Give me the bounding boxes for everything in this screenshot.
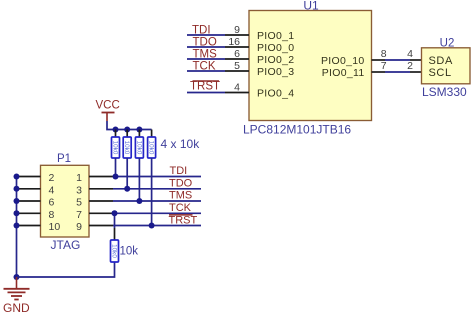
pullup R1 bottom wire to TDI — [115, 158, 117, 177]
wire GND run to pulldown R — [17, 262, 115, 277]
svg-text:6: 6 — [234, 48, 240, 60]
U1 pin 5 stub (TCK) — [225, 70, 249, 72]
svg-text:4: 4 — [234, 82, 240, 94]
P1 pin 4 stub — [17, 188, 41, 190]
svg-text:16: 16 — [228, 36, 240, 48]
P1 pin 5 stub — [89, 200, 113, 202]
junction R2/TDO — [124, 186, 130, 192]
svg-text:SDA: SDA — [429, 55, 453, 67]
svg-text:P1: P1 — [57, 153, 71, 165]
net wire U1 pin8 to U2 SDA — [385, 59, 410, 61]
svg-text:PIO0_11: PIO0_11 — [322, 67, 365, 79]
svg-text:TCK: TCK — [193, 61, 216, 73]
svg-text:10k0: 10k0 — [112, 141, 119, 155]
U1 pin 6 stub (TMS) — [225, 58, 249, 60]
svg-text:7: 7 — [76, 209, 82, 221]
IC U2 body — [422, 48, 471, 84]
U2 pin 4 stub (SDA) — [410, 59, 422, 61]
U1 pin 8 stub (PIO0_10) — [372, 59, 386, 61]
junction P1 pin2/bus — [14, 174, 20, 180]
svg-text:10k: 10k — [120, 246, 139, 258]
junction R4/TRST — [149, 223, 155, 229]
pulldown R5 wire from TCK — [114, 213, 116, 228]
junction rail/R2 — [124, 127, 130, 133]
pullup R4 bottom wire to TRST — [151, 158, 153, 226]
junction R1/TDI — [113, 174, 119, 180]
ground symbol GND — [4, 277, 30, 300]
junction bus/GND corner — [14, 274, 20, 280]
U1 pin 16 stub (TDO) — [225, 46, 249, 48]
U1 pin 7 stub (PIO0_11) — [372, 71, 386, 73]
svg-text:LPC812M101JTB16: LPC812M101JTB16 — [243, 123, 351, 137]
pullup resistor R2 body — [123, 137, 131, 158]
svg-text:SCL: SCL — [429, 67, 452, 79]
svg-text:5: 5 — [234, 60, 240, 72]
svg-text:TMS: TMS — [193, 49, 218, 61]
svg-text:GND: GND — [3, 301, 30, 313]
svg-text:10k0: 10k0 — [135, 141, 142, 155]
junction P1 pin8/bus — [14, 210, 20, 216]
svg-text:8: 8 — [381, 48, 387, 60]
svg-text:PIO0_2: PIO0_2 — [257, 54, 294, 66]
net wire TDI (to U1) — [187, 34, 225, 36]
VCC symbol — [102, 113, 115, 122]
svg-text:2: 2 — [407, 60, 413, 72]
junction rail/R3 — [136, 127, 142, 133]
svg-text:TRST: TRST — [169, 215, 198, 227]
P1 pin 10 stub — [17, 225, 41, 227]
junction P1 pin4/bus — [14, 186, 20, 192]
IC U1 body — [249, 11, 372, 121]
P1 pin 8 stub — [17, 212, 41, 214]
GND bus vertical wire — [16, 177, 18, 278]
svg-text:4: 4 — [49, 184, 55, 196]
pullup R3 bottom wire to TMS — [138, 158, 140, 201]
svg-text:JTAG: JTAG — [51, 238, 81, 252]
junction R5/TCK — [112, 210, 118, 216]
svg-text:10k0: 10k0 — [148, 141, 155, 155]
svg-text:10k0: 10k0 — [123, 141, 130, 155]
svg-text:TDI: TDI — [170, 165, 188, 177]
svg-text:PIO0_10: PIO0_10 — [321, 55, 365, 67]
svg-text:9: 9 — [76, 221, 82, 233]
net wire TRST (from P1 pin 9) — [113, 225, 201, 227]
svg-text:TCK: TCK — [169, 202, 192, 214]
pullup R3 top stub — [138, 130, 140, 138]
U2 pin 2 stub (SCL) — [410, 71, 422, 73]
pullup R2 top stub — [126, 130, 128, 138]
svg-text:8: 8 — [49, 209, 55, 221]
U1 pin 4 stub (TRST) — [225, 92, 249, 94]
svg-text:U2: U2 — [440, 38, 455, 50]
svg-text:10: 10 — [49, 221, 61, 233]
svg-text:4 x 10k: 4 x 10k — [161, 137, 201, 151]
svg-text:PIO0_4: PIO0_4 — [257, 88, 294, 100]
svg-text:TRST: TRST — [190, 81, 220, 93]
svg-text:VCC: VCC — [96, 100, 120, 112]
net wire U1 pin7 to U2 SCL — [385, 71, 410, 73]
pullup resistor R4 body — [148, 137, 156, 158]
net wire TMS (to U1) — [187, 58, 225, 60]
junction rail/R1 — [113, 127, 119, 133]
P1 pin 2 stub — [17, 176, 41, 178]
svg-text:U1: U1 — [303, 0, 319, 13]
svg-text:3: 3 — [76, 184, 82, 196]
svg-text:1: 1 — [76, 172, 82, 184]
pullup R2 bottom wire to TDO — [126, 158, 128, 189]
P1 pin 6 stub — [17, 200, 41, 202]
svg-text:4: 4 — [407, 48, 413, 60]
svg-text:PIO0_3: PIO0_3 — [257, 66, 294, 78]
svg-text:TDO: TDO — [169, 177, 193, 189]
svg-text:TMS: TMS — [169, 190, 192, 202]
svg-text:7: 7 — [381, 60, 387, 72]
svg-text:PIO0_0: PIO0_0 — [257, 42, 294, 54]
svg-text:TDO: TDO — [193, 37, 217, 49]
P1 pin 7 stub — [89, 212, 113, 214]
svg-text:5: 5 — [76, 197, 82, 209]
svg-text:LSM330: LSM330 — [422, 85, 467, 99]
net wire TCK (from P1 pin 7) — [113, 212, 201, 214]
pullup R1 top stub — [115, 130, 117, 138]
wire VCC to pullup rail — [107, 121, 152, 130]
net wire TMS (from P1 pin 5) — [113, 200, 201, 202]
P1 pin 3 stub — [89, 188, 113, 190]
net wire TDO (to U1) — [187, 46, 225, 48]
junction P1 pin10/bus — [14, 223, 20, 229]
P1 pin 9 stub — [89, 225, 113, 227]
svg-text:10k0: 10k0 — [111, 244, 118, 258]
U1 pin 9 stub (TDI) — [225, 34, 249, 36]
pullup resistor R1 body — [112, 137, 120, 158]
net wire TDO (from P1 pin 3) — [113, 188, 201, 190]
svg-text:9: 9 — [234, 24, 240, 36]
svg-text:PIO0_1: PIO0_1 — [257, 30, 294, 42]
junction P1 pin6/bus — [14, 198, 20, 204]
junction R3/TMS — [136, 198, 142, 204]
svg-text:6: 6 — [49, 197, 55, 209]
pulldown resistor R5 body — [111, 240, 119, 262]
svg-text:TDI: TDI — [192, 25, 211, 37]
svg-text:2: 2 — [49, 172, 55, 184]
connector P1 body — [41, 165, 90, 237]
pullup resistor R3 body — [135, 137, 143, 158]
P1 pin 1 stub — [89, 176, 113, 178]
pullup R4 top stub — [151, 130, 153, 138]
net wire TCK (to U1) — [187, 70, 225, 72]
net wire TDI (from P1 pin 1) — [113, 176, 201, 178]
net wire TRST (to U1) — [187, 92, 225, 94]
